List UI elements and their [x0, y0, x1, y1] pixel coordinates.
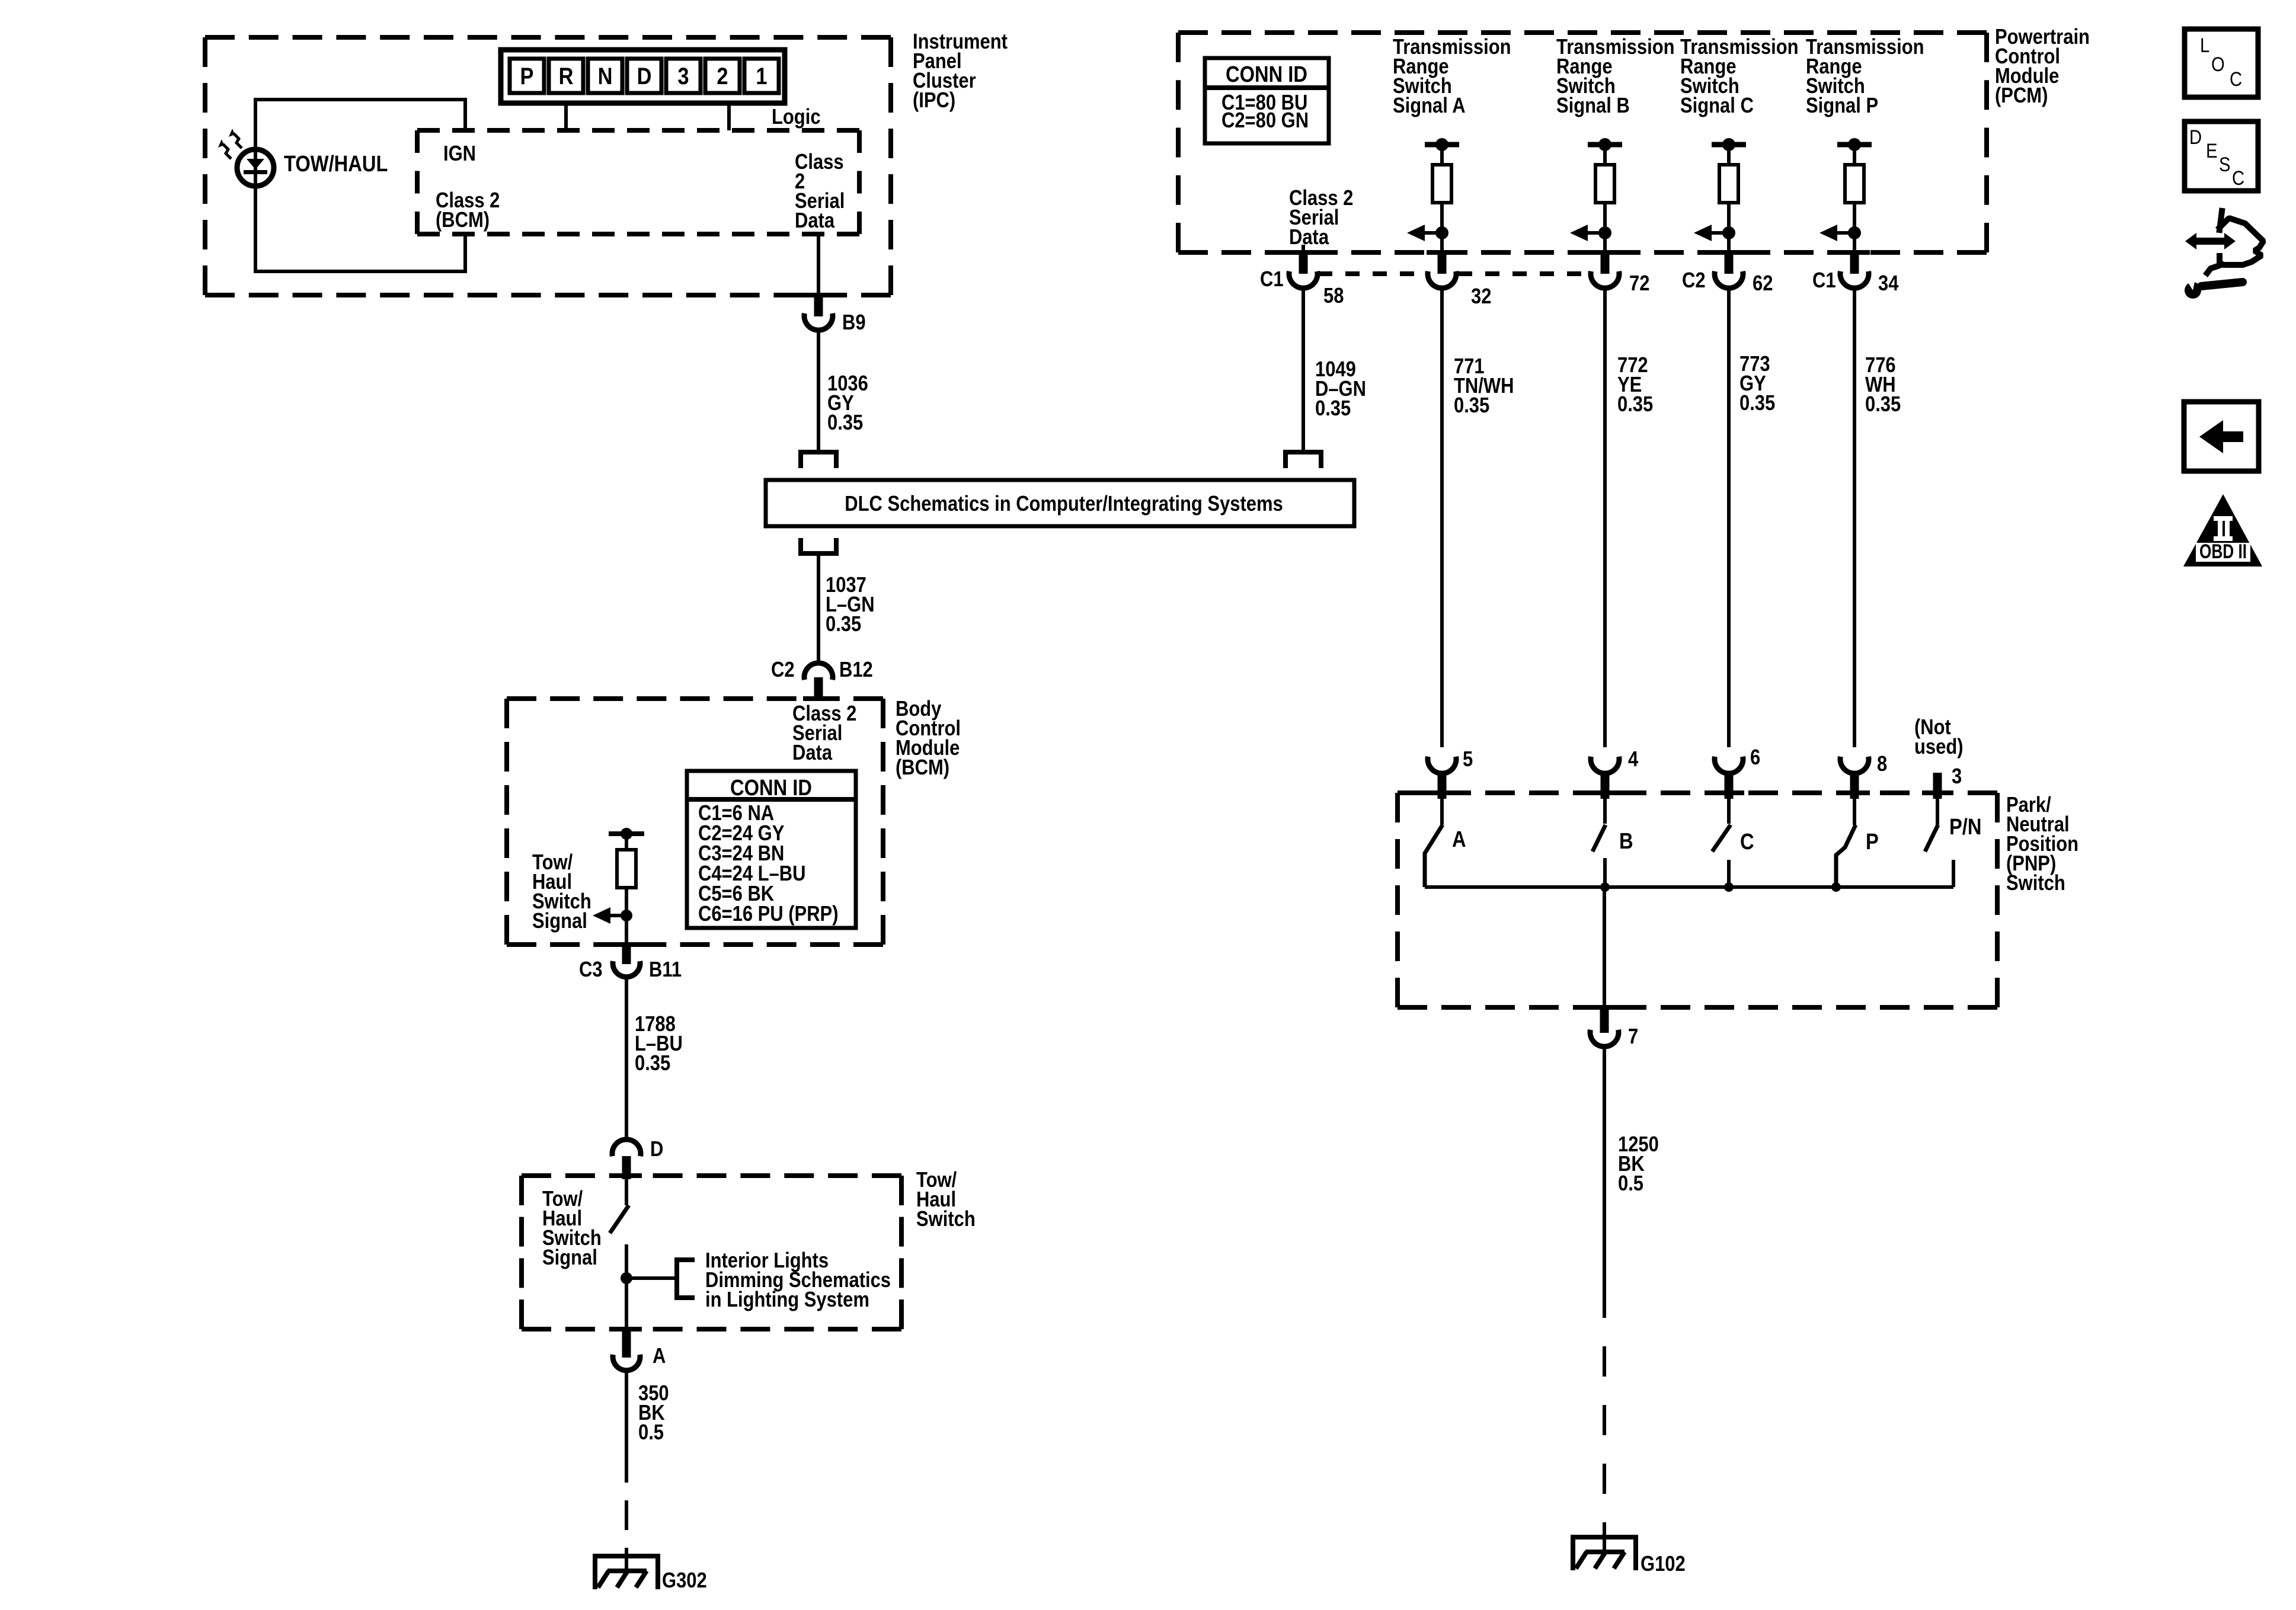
switch P/N: lower contact stub — [1952, 860, 1955, 887]
wire: Class 2 Serial Data to PCM pin 58 — [1302, 245, 1305, 252]
connector pin 8: female terminal arc — [1840, 757, 1869, 773]
svg-text:C3: C3 — [579, 958, 603, 982]
svg-text:C: C — [2232, 167, 2244, 190]
wire 1250 BK: pin 7 toward ground — [1603, 1046, 1606, 1288]
component box: Tow/Haul Switch, dashed outline — [522, 1173, 901, 1178]
resistor: PCM pull-up signal P — [1845, 165, 1864, 203]
switch S1 tow/haul: upper contact wire — [625, 1179, 628, 1205]
resistor: BCM tow/haul input pull-up — [617, 850, 636, 888]
svg-text:58: 58 — [1323, 284, 1344, 308]
PRND321 segment boxes with letters P R N D 3 2 1 — [510, 59, 779, 93]
dash at IPC box bottom edge crossing — [803, 293, 834, 297]
icon: OBD II triangle — [2183, 494, 2262, 566]
junction dot sense (signal B) — [1598, 226, 1611, 239]
switch P: blade — [1836, 825, 1856, 887]
svg-text:3: 3 — [677, 63, 689, 89]
switch P: contact wire — [1853, 796, 1856, 825]
svg-text:Switch: Switch — [2006, 872, 2065, 895]
svg-text:C1: C1 — [1260, 268, 1284, 292]
svg-text:C: C — [2230, 68, 2242, 91]
dash at PCM bottom edge crossing (signal C) — [1713, 250, 1744, 255]
switch A: blade — [1425, 825, 1443, 887]
PCM connector pin (signal C) — [1725, 252, 1734, 274]
svg-text:0.35: 0.35 — [1315, 397, 1351, 421]
connector A: male pin — [622, 1329, 631, 1358]
svg-text:Signal A: Signal A — [1393, 94, 1466, 118]
svg-text:0.35: 0.35 — [1739, 392, 1775, 415]
PCM CONN ID table — [1205, 58, 1329, 143]
connector B9: male pin — [814, 296, 823, 316]
svg-text:Signal C: Signal C — [1680, 94, 1754, 118]
connector pin 7: male pin — [1600, 1007, 1609, 1033]
connector pin 5: female terminal arc — [1428, 757, 1456, 773]
svg-text:D: D — [637, 63, 652, 89]
svg-text:B11: B11 — [649, 958, 682, 982]
svg-text:62: 62 — [1753, 272, 1773, 296]
switch B: contact wire — [1603, 796, 1607, 824]
dash at Tow/Haul box top edge crossing — [611, 1173, 642, 1178]
connector D: male pin — [622, 1156, 631, 1179]
svg-text:P/N: P/N — [1949, 814, 1981, 840]
svg-text:Switch: Switch — [916, 1208, 976, 1231]
svg-text:1: 1 — [756, 63, 767, 89]
connector B12: female terminal arc — [804, 663, 833, 680]
svg-text:C2=80 GN: C2=80 GN — [1221, 109, 1309, 133]
inner box: IPC Logic, dashed outline — [417, 128, 859, 133]
wire: PNP common to pin 7 — [1603, 887, 1606, 1009]
icon: animal head with double arrow and wrench — [2207, 211, 2263, 273]
svg-text:TOW/HAUL: TOW/HAUL — [284, 151, 388, 177]
switch C: blade (open) — [1712, 825, 1731, 852]
svg-text:L: L — [2200, 34, 2209, 57]
wire 776 WH: PCM pin 34 to PNP switch pin 8 — [1853, 288, 1856, 747]
wire: PRND indicator to logic box (right) — [727, 103, 731, 130]
svg-text:Data: Data — [1289, 226, 1329, 249]
PCM connector pin (signal A) — [1438, 252, 1447, 274]
svg-text:(PCM): (PCM) — [1995, 84, 2048, 108]
connector B11: male pin — [622, 945, 631, 964]
svg-text:A: A — [1452, 827, 1466, 852]
svg-text:3: 3 — [1952, 765, 1962, 789]
switch P/N: contact wire — [1936, 799, 1939, 825]
connector C1 dashed link line — [1318, 271, 1425, 276]
PCM internal bar with junction dot (signal C) — [1712, 142, 1746, 148]
svg-text:A: A — [653, 1345, 666, 1368]
svg-text:R: R — [559, 63, 574, 89]
PCM internal bar with junction dot (signal B) — [1588, 142, 1622, 148]
component box: Park/Neutral Position (PNP) Switch, dashed outline — [1398, 790, 1997, 795]
switch P/N: blade (open) — [1925, 825, 1938, 852]
svg-text:(IPC): (IPC) — [913, 89, 955, 113]
BCM internal pull-up: top bar with junction dot — [609, 831, 644, 836]
svg-text:Signal P: Signal P — [1806, 94, 1878, 118]
connector pin 7: female terminal arc — [1590, 1030, 1619, 1046]
switch B: lower contact stub — [1603, 858, 1607, 887]
connector pin 5: male pin — [1438, 772, 1447, 799]
wire: resistor to sense junction (signal C) — [1727, 203, 1731, 252]
dash at PCM bottom edge crossing (signal B) — [1590, 250, 1620, 255]
svg-text:used): used) — [1914, 735, 1964, 759]
connector pin 8: male pin — [1850, 772, 1859, 799]
icon: LOC box — [2185, 29, 2258, 97]
switch S1 tow/haul: blade (open) — [610, 1205, 629, 1233]
wire 350 BK: connector A toward ground — [625, 1371, 628, 1453]
signal sense arrow (signal P) — [1837, 231, 1854, 235]
wire: PRND indicator to logic box (left) — [564, 103, 568, 130]
PCM internal bar with junction dot (signal P) — [1837, 142, 1872, 148]
PCM connector pin (signal B) — [1601, 252, 1610, 274]
wire: bar to resistor (signal B) — [1603, 145, 1607, 165]
signal sense arrow: Tow/Haul Switch Signal — [610, 914, 626, 917]
wire 1037 L-GN: DLC bracket to connector B12 — [817, 553, 820, 664]
svg-text:0.35: 0.35 — [635, 1052, 670, 1076]
svg-text:Signal: Signal — [542, 1246, 597, 1270]
icon: back arrow box — [2184, 402, 2259, 471]
wire 1049 D-GN: pin 58 to DLC bracket — [1302, 288, 1305, 452]
DLC reference box — [766, 480, 1354, 526]
off-page stub bracket: interior lights dimming — [677, 1260, 695, 1298]
wire: junction to dimming schematics stub — [626, 1276, 677, 1280]
LED cathode bar — [244, 170, 267, 174]
svg-text:7: 7 — [1628, 1025, 1638, 1049]
svg-text:Data: Data — [795, 209, 834, 233]
module box: Powertrain Control Module (PCM), dashed outline — [1178, 30, 1987, 35]
module box: Body Control Module (BCM), dashed outline — [507, 696, 883, 701]
svg-text:D: D — [2189, 126, 2202, 149]
dash at Tow/Haul box bottom edge crossing — [611, 1327, 642, 1331]
connector A: female terminal arc — [613, 1355, 640, 1371]
wire 772 YE: PCM pin 72 to PNP switch pin 4 — [1603, 288, 1607, 747]
connector B12: male pin — [814, 677, 823, 699]
svg-text:G302: G302 — [662, 1569, 707, 1593]
PCM connector pin (signal P) — [1850, 252, 1859, 274]
svg-text:2: 2 — [717, 63, 728, 89]
PCM connector female arc (signal C) — [1715, 271, 1743, 288]
svg-text:in Lighting System: in Lighting System — [705, 1288, 869, 1312]
svg-text:C: C — [1740, 829, 1754, 854]
wire: resistor to sense junction (signal A) — [1440, 203, 1444, 252]
off-page bracket below DLC box (left) — [801, 538, 836, 553]
signal sense arrow (signal B) — [1588, 231, 1605, 235]
svg-text:0.35: 0.35 — [1617, 393, 1653, 417]
dash at BCM top edge crossing — [803, 696, 834, 701]
dash at BCM bottom edge crossing — [611, 942, 642, 947]
PCM connector female arc (signal A) — [1428, 271, 1456, 288]
LED diode triangle — [247, 159, 264, 169]
connector pin 4: male pin — [1601, 772, 1610, 799]
connector C1 pin 58: male pin — [1299, 252, 1308, 274]
wire: switch output to connector A — [625, 1278, 628, 1330]
wire: resistor to sense junction (signal P) — [1853, 203, 1856, 252]
resistor: PCM pull-up signal A — [1432, 165, 1451, 203]
svg-text:CONN ID: CONN ID — [730, 775, 812, 801]
resistor: PCM pull-up signal B — [1595, 165, 1614, 203]
wire: bar to resistor (signal C) — [1727, 145, 1731, 165]
svg-text:O: O — [2211, 53, 2225, 76]
wire: bar to resistor (signal A) — [1440, 145, 1444, 165]
svg-text:DLC Schematics in Computer/Int: DLC Schematics in Computer/Integrating S… — [845, 492, 1283, 516]
switch C: contact wire — [1727, 796, 1731, 824]
connector pin 6: male pin — [1725, 772, 1734, 799]
junction dot sense (signal C) — [1722, 226, 1735, 239]
wire 771 TN/WH: PCM pin 32 to PNP switch pin 5 — [1440, 288, 1444, 747]
PCM internal bar with junction dot (signal A) — [1425, 142, 1459, 148]
switch B: blade (open) — [1593, 825, 1606, 852]
junction dot to interior lights dimming — [621, 1272, 632, 1284]
svg-text:IGN: IGN — [443, 142, 476, 166]
PNP common bus wire — [1425, 885, 1953, 889]
LED light emission arrows — [223, 133, 242, 159]
svg-text:0.5: 0.5 — [1618, 1172, 1643, 1196]
svg-text:G102: G102 — [1641, 1553, 1686, 1576]
PRND321 gear indicator outer box — [501, 50, 785, 103]
signal sense arrow (signal A) — [1425, 231, 1442, 235]
junction dot bus-B — [1600, 882, 1610, 892]
svg-text:B9: B9 — [842, 311, 866, 335]
svg-text:N: N — [598, 63, 613, 89]
switch C: lower contact stub — [1727, 860, 1731, 887]
svg-text:(BCM): (BCM) — [896, 756, 949, 780]
svg-text:(BCM): (BCM) — [436, 209, 490, 232]
module box: Instrument Panel Cluster (IPC), dashed outline — [205, 35, 891, 40]
svg-text:72: 72 — [1629, 272, 1649, 296]
junction dot sense (signal P) — [1848, 226, 1861, 239]
junction dot on tow/haul signal sense — [621, 910, 632, 921]
off-page bracket above DLC box (left) — [801, 452, 836, 468]
svg-text:0.35: 0.35 — [827, 411, 863, 435]
junction dot bus-P — [1831, 882, 1841, 892]
dash at PCM bottom edge crossing (signal A) — [1427, 250, 1457, 255]
svg-text:4: 4 — [1628, 748, 1639, 772]
svg-text:P: P — [520, 63, 534, 89]
wire 1788 L-BU: B11 to connector D — [625, 977, 628, 1140]
svg-text:C1: C1 — [1812, 269, 1836, 293]
wire: LED cathode to Class 2 (BCM) logic — [255, 186, 465, 271]
svg-text:0.35: 0.35 — [1454, 394, 1489, 418]
svg-text:C2: C2 — [771, 658, 795, 682]
icon: wrench — [2185, 282, 2201, 299]
svg-text:Signal: Signal — [532, 910, 587, 933]
ground G102 — [1571, 1535, 1638, 1539]
wire: bar to resistor (signal P) — [1853, 145, 1856, 165]
svg-text:Logic: Logic — [772, 105, 821, 129]
wire 773 GY: PCM pin 62 to PNP switch pin 6 — [1727, 288, 1731, 747]
svg-text:0.35: 0.35 — [1865, 393, 1901, 417]
wire: pull-up bar to resistor — [625, 834, 628, 850]
connector C1 pin 58: female terminal arc — [1289, 271, 1318, 288]
svg-text:32: 32 — [1471, 285, 1491, 309]
svg-text:CONN ID: CONN ID — [1226, 62, 1307, 87]
wire 1036 GY: B9 to DLC bracket — [817, 330, 820, 452]
connector B11: female terminal arc — [613, 961, 640, 977]
switch S1 tow/haul: lower contact stub — [625, 1244, 628, 1278]
wire: resistor to BCM output pin — [625, 888, 628, 945]
ground G302 — [593, 1554, 660, 1558]
svg-text:6: 6 — [1750, 746, 1760, 770]
wire: Class 2 Serial Data from logic box to connector B9 — [817, 234, 820, 296]
icon: DESC box — [2185, 121, 2258, 191]
junction dot sense (signal A) — [1435, 226, 1448, 239]
dashes at PNP top edge crossings — [1427, 790, 1457, 795]
wire: LED anode to IGN input — [255, 100, 465, 186]
junction dot bus-C — [1724, 882, 1734, 892]
svg-text:Signal B: Signal B — [1556, 94, 1630, 118]
dash at PCM bottom edge crossing (signal P) — [1839, 250, 1870, 255]
svg-text:C2: C2 — [1682, 269, 1706, 293]
wire 1250 BK dashed continuation to G102 — [1603, 1288, 1606, 1537]
svg-text:34: 34 — [1878, 272, 1899, 296]
resistor: PCM pull-up signal C — [1719, 165, 1738, 203]
switch A: contact wire — [1440, 796, 1444, 825]
svg-text:D: D — [650, 1138, 663, 1161]
wire 350 BK dashed continuation to G302 — [625, 1453, 628, 1556]
svg-text:0.5: 0.5 — [638, 1421, 664, 1445]
svg-text:B12: B12 — [839, 658, 873, 682]
svg-text:OBD II: OBD II — [2199, 540, 2247, 563]
svg-text:B: B — [1619, 828, 1633, 854]
dash at PNP bottom edge crossing — [1589, 1005, 1620, 1010]
BCM CONN ID table — [687, 771, 856, 928]
PCM connector female arc (signal P) — [1840, 271, 1869, 288]
svg-text:S: S — [2219, 153, 2230, 176]
connector pin 6: female terminal arc — [1715, 757, 1743, 773]
connector pin 3 (not used): male pin — [1933, 773, 1942, 799]
svg-text:E: E — [2206, 139, 2217, 162]
dash at PCM bottom edge crossing (pin 58) — [1288, 250, 1319, 255]
svg-text:C6=16 PU (PRP): C6=16 PU (PRP) — [698, 902, 839, 926]
off-page bracket above DLC box (right) — [1285, 452, 1321, 468]
svg-text:0.35: 0.35 — [826, 613, 861, 636]
LED indicator D1 TOW/HAUL: circle — [237, 149, 274, 186]
connector D: female terminal arc — [612, 1140, 641, 1156]
wire: resistor to sense junction (signal B) — [1603, 203, 1607, 252]
svg-text:8: 8 — [1877, 753, 1887, 776]
svg-text:P: P — [1866, 829, 1879, 854]
connector pin 4: female terminal arc — [1591, 757, 1619, 773]
connector B9: female terminal arc — [804, 313, 833, 330]
PCM connector female arc (signal B) — [1591, 271, 1619, 288]
svg-text:Data: Data — [792, 741, 832, 765]
svg-text:5: 5 — [1463, 748, 1473, 772]
signal sense arrow (signal C) — [1712, 231, 1729, 235]
